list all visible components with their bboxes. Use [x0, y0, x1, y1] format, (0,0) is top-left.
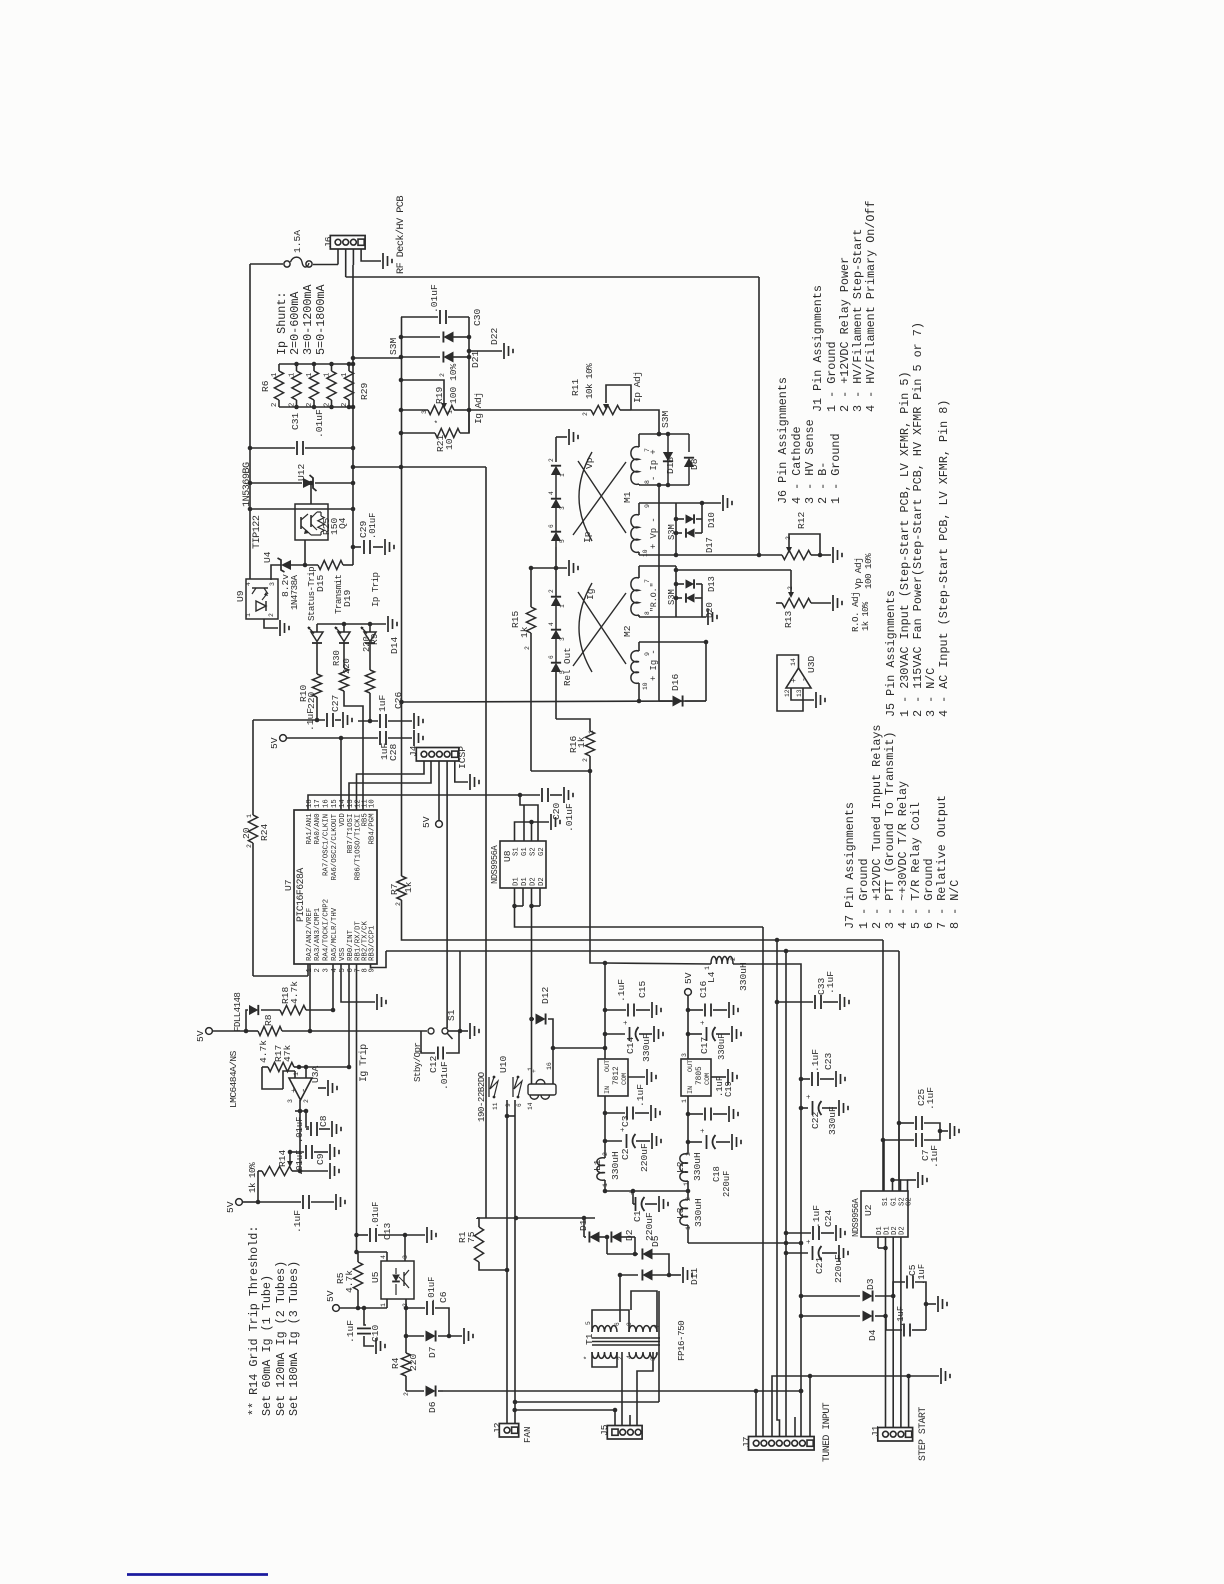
- J6 pin1 wire: [337, 249, 339, 265]
- ground C5: [926, 1303, 936, 1305]
- resistor R5 4.7k: [356, 1235, 358, 1252]
- svg-text:J1: J1: [870, 1425, 881, 1437]
- svg-text:330uH: 330uH: [693, 1198, 704, 1227]
- power node 5V: [206, 1028, 213, 1035]
- svg-text:7805: 7805: [696, 1066, 704, 1085]
- svg-text:D8: D8: [689, 458, 700, 470]
- svg-text:2: 2: [324, 403, 332, 407]
- resistor R1 75: [477, 1218, 479, 1227]
- svg-text:R11: R11: [570, 378, 581, 396]
- svg-text:Ig Adj: Ig Adj: [473, 392, 484, 424]
- svg-text:C3: C3: [620, 1115, 631, 1127]
- diode D16: [659, 700, 672, 702]
- svg-text:C2: C2: [620, 1148, 631, 1160]
- svg-text:2: 2: [439, 373, 446, 377]
- svg-text:C1: C1: [632, 1210, 643, 1222]
- diode D13: [676, 583, 684, 585]
- svg-text:4 - Cathode: 4 - Cathode: [790, 426, 804, 504]
- svg-text:C15: C15: [637, 980, 648, 998]
- wire U2 D pins: [877, 1237, 879, 1248]
- svg-text:4.7k: 4.7k: [289, 981, 300, 1004]
- wire S3M right rail: [468, 317, 470, 433]
- svg-text:C27: C27: [330, 695, 341, 712]
- diode D22: [401, 336, 440, 338]
- wire M2 coil top row: [639, 641, 706, 643]
- svg-text:D2: D2: [624, 1229, 635, 1241]
- wire U8 D2 to D12: [531, 906, 533, 1019]
- wire clamp loop M1: [701, 503, 703, 533]
- svg-text:S3M: S3M: [667, 524, 677, 540]
- svg-text:.01uF: .01uF: [429, 284, 440, 313]
- svg-text:1: 1: [681, 1099, 688, 1103]
- meter M2 scale arcs: [579, 583, 592, 672]
- svg-text:5V: 5V: [195, 1030, 206, 1042]
- inductor L3 330uH: [680, 1200, 688, 1225]
- capacitor C24 .1uF: [786, 1232, 811, 1234]
- node 12V rail: [604, 963, 606, 1059]
- svg-text:47k: 47k: [282, 1044, 293, 1062]
- svg-text:1 - Ground: 1 - Ground: [829, 433, 843, 504]
- svg-text:C19: C19: [724, 1081, 734, 1097]
- connector J7 TUNED INPUT: [749, 1437, 815, 1451]
- svg-text:6: 6: [516, 1103, 523, 1107]
- svg-text:1: 1: [289, 373, 297, 377]
- svg-text:10k 10%: 10k 10%: [584, 363, 595, 399]
- svg-text:2: 2: [582, 412, 589, 416]
- svg-text:16: 16: [323, 799, 331, 808]
- wire R11 to D18 box: [631, 410, 659, 434]
- svg-text:C31: C31: [290, 412, 301, 430]
- svg-text:C30: C30: [472, 308, 483, 326]
- capacitor C30 .01uF: [401, 316, 438, 318]
- svg-text:15: 15: [331, 799, 339, 808]
- svg-text:5V: 5V: [421, 816, 432, 828]
- IC U2 NDS9956A: [861, 1191, 908, 1237]
- wire fuse to J6 pin1: [313, 264, 338, 266]
- wire T1 pin7: [631, 1291, 657, 1332]
- capacitor .1uF lower: [886, 1316, 902, 1330]
- svg-text:1: 1: [559, 604, 566, 608]
- diode string 2: [551, 597, 561, 606]
- transistor Q4 TIP122: [295, 504, 328, 540]
- diode D3: [801, 1295, 860, 1297]
- wire RA3: [309, 964, 311, 1031]
- svg-text:2: 2: [685, 1152, 692, 1156]
- svg-text:220: 220: [362, 636, 372, 652]
- svg-text:150: 150: [329, 517, 340, 535]
- svg-text:1N4738A: 1N4738A: [289, 575, 300, 610]
- ground at J6: [382, 253, 384, 269]
- svg-text:1: 1: [341, 373, 349, 377]
- svg-text:2: 2: [314, 968, 322, 972]
- wire J1 pin4: [908, 1376, 910, 1428]
- wire LED common: [317, 623, 386, 625]
- svg-text:D17: D17: [705, 537, 715, 553]
- svg-text:R24: R24: [259, 823, 270, 841]
- svg-text:Ip Trip: Ip Trip: [370, 573, 381, 607]
- svg-text:C28: C28: [388, 743, 399, 761]
- svg-text:D6: D6: [427, 1401, 438, 1413]
- svg-text:C20: C20: [551, 802, 562, 820]
- diode D6 on relay line: [406, 1390, 424, 1392]
- svg-text:U8: U8: [502, 850, 513, 862]
- wire U5 pin2: [405, 1299, 407, 1308]
- wire R5 top to U5 pin4: [357, 1251, 388, 1253]
- svg-text:2: 2: [602, 1152, 609, 1156]
- svg-text:S1: S1: [446, 1009, 457, 1021]
- svg-text:190-22B2DO: 190-22B2DO: [476, 1071, 487, 1122]
- wire rectifier rail: [605, 1190, 688, 1192]
- svg-text:3=0-1200mA: 3=0-1200mA: [301, 284, 315, 355]
- svg-text:.1uF: .1uF: [929, 1145, 940, 1168]
- svg-text:L1: L1: [592, 1159, 603, 1171]
- wire RA1 to C20 net: [308, 795, 520, 810]
- svg-text:3 - N/C: 3 - N/C: [924, 668, 938, 717]
- svg-text:3: 3: [559, 637, 566, 641]
- svg-text:*: *: [584, 1356, 592, 1360]
- regulator 7805: [681, 1059, 711, 1096]
- svg-text:1: 1: [588, 730, 595, 734]
- capacitor C18 220uF: [688, 1141, 702, 1143]
- ground U3A: [318, 1087, 326, 1089]
- wire 7812 IN rail: [604, 1096, 606, 1158]
- wire U9 pin3 up to U4: [271, 565, 281, 579]
- wire fan AC bracket: [477, 1217, 595, 1219]
- wire pin7 down: [658, 1291, 660, 1402]
- wire Vp clamp ground row: [676, 502, 702, 504]
- wire B- left rail: [249, 264, 251, 579]
- svg-text:-: -: [800, 677, 809, 682]
- wire output to C8: [306, 1111, 309, 1127]
- svg-text:Rel Out: Rel Out: [562, 647, 573, 686]
- svg-text:OUT: OUT: [604, 1060, 612, 1072]
- svg-text:G2: G2: [538, 847, 546, 856]
- wire Vp bottom to R12: [676, 554, 759, 556]
- transformer U10 190-22B2DO: [488, 1077, 490, 1097]
- ground diode string 2: [556, 547, 567, 568]
- svg-text:.1uF: .1uF: [345, 1320, 356, 1343]
- wire C20 net: [520, 794, 540, 796]
- svg-text:R30: R30: [332, 650, 342, 666]
- svg-text:.01uF: .01uF: [439, 1061, 450, 1090]
- capacitor C26 1uF: [358, 720, 378, 722]
- wire ICSP data staircase 1: [357, 761, 425, 810]
- inductor L2 330uH: [680, 1154, 688, 1182]
- svg-text:1: 1: [293, 1072, 300, 1076]
- svg-text:RA6/OSC2/CLKOUT: RA6/OSC2/CLKOUT: [331, 813, 339, 880]
- power 5V U5: [333, 1305, 340, 1312]
- svg-text:5V: 5V: [683, 972, 694, 984]
- capacitor C9: [300, 1111, 304, 1152]
- svg-text:PIC16F628A: PIC16F628A: [295, 868, 306, 922]
- svg-text:12: 12: [784, 689, 791, 697]
- svg-text:10: 10: [642, 549, 649, 557]
- svg-text:1: 1: [380, 1303, 387, 1307]
- op-amp U3D: [786, 668, 811, 688]
- svg-text:+: +: [629, 1190, 637, 1195]
- svg-text:R6: R6: [260, 380, 271, 392]
- optocoupler U5: [381, 1261, 414, 1299]
- svg-text:R4: R4: [390, 1357, 401, 1369]
- svg-text:5V: 5V: [325, 1290, 336, 1302]
- meter M2 coil Ig: [638, 642, 640, 651]
- svg-text:.01uF: .01uF: [371, 1202, 381, 1228]
- wire R17 to RB0: [299, 1066, 349, 1068]
- svg-text:5: 5: [585, 1321, 592, 1325]
- wire VSS ground: [341, 964, 375, 1002]
- svg-text:5V: 5V: [225, 1201, 236, 1213]
- svg-text:10: 10: [444, 438, 455, 450]
- wire HV sense vertical to R12: [758, 277, 760, 555]
- svg-text:6: 6: [548, 655, 555, 659]
- diode D21: [401, 356, 440, 358]
- svg-text:.1uF: .1uF: [635, 1084, 646, 1107]
- svg-text:4: 4: [626, 1355, 633, 1359]
- svg-text:3: 3: [402, 1255, 409, 1259]
- capacitor C22 330uF: [801, 1107, 808, 1109]
- svg-text:C17: C17: [699, 1037, 710, 1054]
- svg-text:75: 75: [466, 1231, 477, 1243]
- capacitor C28 1uF with 5V: [280, 735, 287, 742]
- svg-text:+ Vp -: + Vp -: [649, 517, 659, 549]
- svg-text:G1: G1: [521, 847, 529, 856]
- diode D4: [801, 1315, 860, 1317]
- svg-text:R29: R29: [359, 382, 370, 400]
- svg-text:FP16-750: FP16-750: [676, 1321, 687, 1361]
- capacitor C29: [353, 546, 361, 548]
- svg-text:FAN: FAN: [522, 1426, 533, 1443]
- diode FDLL4148: [246, 1010, 248, 1031]
- svg-text:3 - HV Sense: 3 - HV Sense: [803, 419, 817, 504]
- svg-text:Vp: Vp: [584, 457, 595, 469]
- svg-text:1: 1: [602, 1183, 609, 1187]
- wire J4 5V: [438, 761, 440, 820]
- svg-text:"R.O.": "R.O.": [649, 583, 659, 612]
- svg-text:6: 6: [614, 1322, 621, 1326]
- wire Q4 base: [304, 540, 306, 565]
- switch S1 Stby/Opr: [428, 1028, 434, 1034]
- svg-text:17: 17: [314, 799, 322, 808]
- power 5V R14: [236, 1199, 243, 1206]
- wire L4 to 5V bus corner: [733, 964, 801, 1437]
- svg-text:VDD: VDD: [339, 813, 347, 827]
- potentiometer R11 10k 10%: [591, 405, 620, 414]
- svg-text:2: 2: [271, 403, 279, 407]
- wire center tap to winding: [619, 1275, 621, 1322]
- wire J1 pin2: [892, 1248, 894, 1428]
- capacitor C25 .1uF: [899, 1122, 914, 1124]
- wire shunt bottom rail: [279, 406, 353, 408]
- svg-text:RB4/PGM: RB4/PGM: [369, 813, 377, 844]
- svg-text:RA4/TOCKI/CMP2: RA4/TOCKI/CMP2: [323, 899, 331, 961]
- wire U10 to J2 feeds: [506, 1100, 508, 1270]
- svg-text:4: 4: [245, 582, 252, 586]
- svg-text:D1: D1: [521, 877, 529, 886]
- wire RB0 Ig trip comparator: [348, 964, 350, 1067]
- resistor R24 20: [252, 720, 254, 815]
- svg-text:7812: 7812: [613, 1066, 621, 1085]
- svg-text:2: 2: [341, 403, 349, 407]
- svg-text:2: 2: [548, 458, 555, 462]
- wire T1 5-8 jumper: [592, 1310, 629, 1332]
- svg-text:1: 1: [246, 814, 253, 818]
- wire U9 pin2 ground: [264, 619, 278, 628]
- svg-text:J1 Pin Assignments: J1 Pin Assignments: [811, 285, 825, 412]
- wire U3D +in ground: [791, 688, 814, 700]
- svg-text:1N5369BG: 1N5369BG: [242, 462, 253, 507]
- svg-text:2: 2: [785, 536, 792, 540]
- svg-text:D3: D3: [865, 1278, 876, 1290]
- svg-text:R15: R15: [510, 610, 521, 628]
- svg-text:D2: D2: [899, 1226, 907, 1235]
- svg-text:1: 1: [704, 966, 711, 970]
- svg-text:J7 Pin Assignments: J7 Pin Assignments: [843, 802, 857, 929]
- svg-text:.01uF: .01uF: [427, 1277, 437, 1303]
- meter M2 coil RO box: [639, 565, 676, 567]
- wire G1 G2 bridge: [520, 795, 538, 841]
- wire U9 pin3: [270, 579, 272, 580]
- inductor L1 330uH: [597, 1158, 605, 1180]
- svg-text:+: +: [700, 1020, 708, 1025]
- wire U3A +in: [294, 1071, 296, 1078]
- wire VDD: [340, 738, 342, 810]
- svg-text:4 - ~+30VDC T/R Relay: 4 - ~+30VDC T/R Relay: [896, 781, 910, 929]
- svg-text:C6: C6: [438, 1291, 449, 1303]
- svg-text:FDLL4148: FDLL4148: [232, 993, 243, 1032]
- capacitor C7 .1uF: [883, 1139, 914, 1141]
- wire R18 to MCLR: [332, 964, 334, 1010]
- svg-text:14: 14: [339, 799, 347, 808]
- wire main vertical B- bus: [352, 265, 354, 565]
- ground M1 top: [556, 436, 567, 438]
- capacitor C19 .1uF: [688, 1113, 703, 1115]
- svg-text:3 - HV/Filament Step-Start: 3 - HV/Filament Step-Start: [851, 229, 865, 412]
- svg-text:3: 3: [269, 582, 276, 586]
- wire J1 pin3: [900, 1248, 902, 1428]
- svg-text:R7: R7: [389, 883, 400, 895]
- wire RO top to R13: [676, 569, 791, 571]
- svg-text:R.O. Adj: R.O. Adj: [850, 592, 861, 632]
- svg-text:4.7k: 4.7k: [344, 1270, 355, 1293]
- svg-text:S3M: S3M: [667, 589, 677, 605]
- svg-text:Ip: Ip: [582, 531, 593, 543]
- svg-text:5: 5: [559, 539, 566, 543]
- svg-text:STEP START: STEP START: [917, 1407, 928, 1461]
- wire 5V row to S1: [310, 1030, 427, 1032]
- svg-text:.01uF: .01uF: [368, 513, 378, 539]
- svg-text:J6 Pin Assignments: J6 Pin Assignments: [776, 377, 790, 504]
- svg-text:3: 3: [323, 968, 331, 972]
- wire R17 left: [262, 1067, 283, 1089]
- IC U7 PIC16F628A: [294, 810, 377, 964]
- svg-text:2 - 115VAC Fan Power(Step-Star: 2 - 115VAC Fan Power(Step-Start PCB, HV …: [911, 322, 925, 717]
- wire relay line long: [443, 1390, 801, 1392]
- svg-text:100 10%: 100 10%: [448, 363, 459, 404]
- potentiometer R13 RO Adj 1k 10%: [790, 570, 792, 592]
- svg-text:RA1/AN1: RA1/AN1: [306, 813, 314, 845]
- svg-text:3: 3: [421, 410, 428, 414]
- svg-text:C23: C23: [823, 1052, 834, 1070]
- svg-text:NDS9956A: NDS9956A: [851, 1198, 861, 1237]
- svg-text:+: +: [806, 1239, 814, 1244]
- svg-text:9: 9: [644, 504, 651, 508]
- svg-text:1: 1: [306, 373, 314, 377]
- svg-text:U7: U7: [283, 879, 294, 891]
- svg-text:*: *: [656, 1352, 664, 1356]
- wire D16 up: [705, 642, 707, 701]
- wire bus A corner: [882, 940, 884, 1191]
- svg-text:220: 220: [408, 1353, 419, 1371]
- potentiometer R14 1k 10%: [258, 1170, 262, 1172]
- capacitor C21 220uF: [786, 1252, 808, 1254]
- svg-text:Set 60mA Ig (1 Tube): Set 60mA Ig (1 Tube): [260, 1275, 274, 1416]
- svg-text:Ip Adj: Ip Adj: [632, 371, 643, 403]
- wire B- to S3M: [353, 357, 401, 359]
- resistor R6 shunt #3: [313, 364, 315, 371]
- J6 pin3 wire main B- vertical: [352, 249, 354, 265]
- svg-text:1 - Ground: 1 - Ground: [825, 341, 839, 412]
- wire U8 D1 to bus: [515, 906, 764, 927]
- zener U4 8.2v 1N4738A: [281, 560, 291, 570]
- svg-text:7 - Relative Output: 7 - Relative Output: [935, 795, 949, 929]
- wire U8 D1 pins: [514, 888, 516, 906]
- svg-text:U5: U5: [370, 1271, 381, 1283]
- svg-text:.1uF: .1uF: [616, 979, 627, 1002]
- svg-text:LMC6484A/NS: LMC6484A/NS: [228, 1050, 239, 1108]
- svg-text:10: 10: [369, 799, 377, 808]
- wire RB1 trip line: [356, 964, 358, 1235]
- svg-text:11: 11: [492, 1102, 499, 1110]
- footer rule: [127, 1573, 268, 1576]
- svg-text:.1uF: .1uF: [917, 1264, 927, 1285]
- svg-text:.1uF: .1uF: [825, 971, 836, 994]
- wire J5 pin4: [636, 1402, 638, 1426]
- diode D17: [676, 532, 682, 534]
- svg-text:D14: D14: [389, 636, 400, 654]
- ground tuned input: [909, 1375, 939, 1377]
- wire U2 S2 stub: [898, 1123, 900, 1180]
- svg-text:4: 4: [548, 491, 555, 495]
- svg-text:L2: L2: [675, 1161, 686, 1173]
- svg-text:D13: D13: [707, 576, 717, 592]
- svg-text:2 - +12VDC Tuned Input Relays: 2 - +12VDC Tuned Input Relays: [870, 725, 884, 929]
- capacitor C17 330uF: [688, 1033, 702, 1035]
- svg-text:.1uF: .1uF: [896, 1306, 906, 1327]
- svg-text:.1uF: .1uF: [305, 708, 316, 731]
- wire S1 net: [448, 1030, 460, 1032]
- svg-text:D2: D2: [530, 877, 538, 886]
- svg-text:U4: U4: [262, 551, 273, 563]
- svg-text:+: +: [806, 1094, 814, 1099]
- power 5V output: [685, 989, 692, 996]
- ground D11: [669, 1274, 681, 1276]
- svg-text:J7: J7: [741, 1436, 752, 1448]
- wire J2 pin1: [506, 1270, 508, 1424]
- wire S3M left rail and metering bus: [401, 317, 403, 876]
- resistor R9 220: [365, 670, 374, 693]
- wire J5 pin3: [629, 1415, 631, 1426]
- wire 7805 IN rail: [687, 1096, 689, 1154]
- svg-text:2: 2: [524, 646, 531, 650]
- svg-text:1.5A: 1.5A: [292, 230, 303, 253]
- wire L3 output: [688, 1242, 801, 1244]
- wire collector row through Q4: [250, 508, 353, 510]
- wire U2 S1 stub: [883, 1140, 885, 1191]
- svg-text:1uF: 1uF: [377, 694, 388, 712]
- diode D20: [676, 597, 682, 599]
- svg-text:D1: D1: [513, 877, 521, 886]
- wire 763 bus to J7 pin2: [762, 927, 764, 1437]
